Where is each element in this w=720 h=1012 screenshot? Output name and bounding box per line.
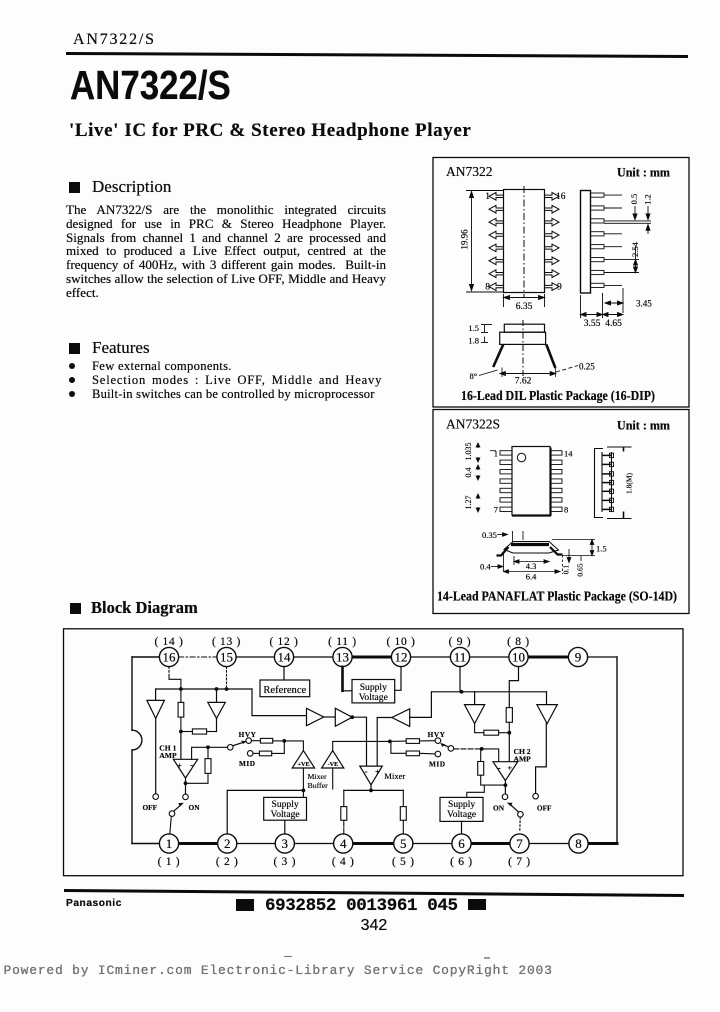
wire U1 inverting input riser bbox=[192, 747, 208, 759]
buffer A4 (live filter stage 2) bbox=[335, 708, 352, 726]
wire pin2-pin3 bbox=[237, 843, 275, 845]
resistor R1 stem bottom bbox=[180, 717, 182, 731]
svg-text:( 12 ): ( 12 ) bbox=[269, 636, 298, 648]
svg-text:+: + bbox=[375, 768, 380, 777]
resistor R2 bbox=[192, 729, 206, 734]
resistor R10 bbox=[400, 807, 406, 821]
buffer -VE (mixer buffer) bbox=[322, 751, 344, 768]
wire node to op-amp U1 + input bbox=[180, 732, 182, 760]
label MID (CH2) bbox=[429, 759, 446, 768]
switch contact OFF (CH1) bbox=[153, 794, 159, 800]
wire amp A2 stem bbox=[216, 689, 218, 702]
side pins bbox=[591, 193, 652, 288]
front centerline bbox=[522, 320, 524, 378]
pin 8 (bottom) bbox=[569, 834, 588, 853]
wire node to switch SW1 common bbox=[208, 746, 228, 748]
SO body bbox=[512, 447, 550, 516]
wire rail right leg bbox=[402, 790, 404, 806]
svg-text:15: 15 bbox=[220, 649, 233, 664]
svg-text:HVY: HVY bbox=[239, 730, 257, 739]
wire feedback hook bbox=[186, 773, 209, 783]
op-amp U1 (CH1 amp) bbox=[173, 759, 197, 778]
switch contact MID (CH2) bbox=[435, 751, 441, 757]
16-DIP outline box bbox=[433, 158, 689, 408]
label OFF (CH2) bbox=[537, 803, 552, 812]
wire MID contact to R5 bbox=[253, 752, 259, 754]
dim 1.5 / 1.8 bbox=[481, 325, 492, 343]
wire pin8 to right edge (thick) bbox=[588, 842, 617, 845]
wire left input bus bbox=[156, 688, 252, 690]
wire SW2 pivot to feedback node bbox=[454, 748, 482, 750]
buffer A3 (live filter stage 1) bbox=[307, 708, 324, 725]
wire pin5-pin6 bbox=[413, 843, 452, 845]
wire R6 bottom hook to output bbox=[481, 775, 505, 785]
wire pin13-pin12 (thick) bbox=[352, 656, 391, 659]
switch SW3 arm with arrow bbox=[507, 803, 518, 812]
resistor R9 bbox=[341, 807, 347, 821]
svg-text:ON: ON bbox=[493, 804, 505, 813]
wire pin7-pin8 bbox=[529, 843, 569, 845]
svg-text:12: 12 bbox=[395, 649, 408, 664]
label OFF (CH1) bbox=[143, 803, 158, 812]
legs bbox=[493, 344, 503, 367]
profile dims bbox=[497, 531, 523, 543]
dim 0.25 bbox=[556, 366, 578, 373]
node +VE output bbox=[302, 789, 306, 793]
dim 19.96 bbox=[466, 191, 503, 293]
front body lower bbox=[500, 332, 546, 344]
svg-text:OFF: OFF bbox=[537, 803, 552, 812]
resistor R5 (MID gain) bbox=[259, 751, 271, 756]
resistor R8 bbox=[484, 730, 499, 735]
wire R3 top lead bbox=[207, 747, 209, 758]
thick body band bbox=[511, 543, 549, 546]
switch SW1 common contact bbox=[228, 745, 234, 751]
wire pin4-pin5 (thick) bbox=[353, 842, 394, 845]
svg-text:-: - bbox=[190, 760, 193, 770]
svg-text:-VE: -VE bbox=[328, 761, 339, 768]
label Mixer Buffer bbox=[308, 772, 329, 790]
DIP centerline bbox=[523, 186, 525, 297]
left lead bbox=[497, 547, 509, 556]
svg-text:Voltage: Voltage bbox=[359, 692, 388, 703]
wire node to op-amp U2 + input bbox=[508, 733, 510, 762]
pin 4 (bottom) bbox=[332, 834, 355, 868]
node bus/R1 bbox=[179, 687, 183, 691]
resistor R4 (HVY gain) bbox=[260, 738, 272, 743]
wire node riser to R12 bbox=[391, 741, 406, 753]
label CH 2 AMP bbox=[514, 747, 532, 764]
wire supply box to pin6 bbox=[461, 821, 463, 834]
svg-text:( 11 ): ( 11 ) bbox=[328, 636, 357, 648]
SO pins left bbox=[500, 451, 512, 512]
block Reference bbox=[260, 680, 310, 697]
svg-text:+VE: +VE bbox=[298, 761, 310, 768]
DIP pins left bbox=[489, 193, 504, 291]
wire R10 to pin5 bbox=[402, 820, 404, 834]
svg-text:( 2 ): ( 2 ) bbox=[216, 856, 239, 868]
wire pin13 stub (thick) bbox=[343, 667, 353, 691]
wire R5 riser to node bbox=[272, 741, 285, 754]
pin 14 (top) bbox=[269, 636, 298, 667]
wire pin14 stub bbox=[283, 667, 285, 680]
wire R6 top lead bbox=[480, 749, 482, 762]
SO left dims bbox=[476, 443, 496, 512]
node A4 output bbox=[350, 715, 354, 719]
node feedback/inverting (CH2) bbox=[480, 747, 484, 751]
dim 3.45 bbox=[605, 288, 623, 313]
dim 7.62 bbox=[500, 368, 556, 378]
wire pin12 stub bbox=[395, 667, 401, 691]
svg-text:MID: MID bbox=[239, 759, 256, 768]
svg-text:11: 11 bbox=[454, 649, 467, 664]
svg-text:( 7 ): ( 7 ) bbox=[508, 856, 531, 868]
wire A5 output to mixer right input bbox=[377, 718, 392, 767]
node R1/R2 junction bbox=[179, 730, 183, 734]
wire HVY contact to R4 bbox=[252, 740, 261, 742]
wire pin9 to right edge bbox=[588, 656, 617, 658]
wire pin15 stub (dotted) bbox=[226, 667, 228, 687]
node pin11/bus bbox=[460, 690, 464, 694]
wire U1 output down bbox=[185, 778, 187, 794]
op-amp A1 (CH1 input buffer) bbox=[147, 700, 165, 718]
wire amp A1 stem bbox=[155, 689, 157, 700]
svg-text:5: 5 bbox=[400, 836, 407, 851]
wire supply box to pin3 bbox=[284, 820, 286, 834]
pin 13 (top) bbox=[328, 636, 357, 667]
resistor R11 (HVY gain CH2) bbox=[406, 739, 419, 744]
svg-text:( 13 ): ( 13 ) bbox=[212, 636, 241, 648]
svg-text:( 9 ): ( 9 ) bbox=[449, 636, 472, 648]
wire pin2 riser to +VE node bbox=[227, 790, 303, 834]
op-amp A6 (CH2 gain amp) bbox=[465, 705, 485, 724]
wire pin16-pin15 (dash-dot) bbox=[179, 656, 217, 658]
resistor R1 bbox=[178, 702, 184, 717]
op-amp A2 (CH1 gain amp) bbox=[208, 702, 226, 718]
pin 15 (top) bbox=[212, 636, 241, 667]
wire node to U2 inverting input bbox=[482, 749, 499, 762]
node mixer output bbox=[369, 789, 373, 793]
wire A6 stem bbox=[474, 692, 476, 705]
svg-text:Buffer: Buffer bbox=[308, 781, 329, 790]
svg-text:Mixer: Mixer bbox=[308, 772, 327, 781]
node A2 stem on bus bbox=[215, 687, 219, 691]
switch contact HVY (CH1) bbox=[246, 738, 252, 744]
wire pin12-pin11 bbox=[411, 656, 451, 658]
wire pin16 stub (dotted) bbox=[168, 667, 170, 677]
svg-text:( 6 ): ( 6 ) bbox=[450, 856, 473, 868]
svg-text:7: 7 bbox=[516, 836, 523, 851]
op-amp U2 (CH2 amp) bbox=[493, 762, 518, 781]
wire pin10 elbow bbox=[509, 667, 518, 708]
pin 6 (bottom) bbox=[450, 834, 473, 868]
svg-text:16: 16 bbox=[163, 649, 177, 664]
svg-text:2: 2 bbox=[224, 836, 231, 851]
wire bus elbow to A5 input bbox=[410, 692, 432, 718]
resistor R12 (MID gain CH2) bbox=[406, 751, 419, 756]
switch contact HVY (CH2) bbox=[435, 738, 441, 744]
svg-text:Reference: Reference bbox=[263, 685, 306, 696]
wire pin15-pin14 bbox=[236, 656, 274, 658]
IC outline right edge bbox=[616, 657, 618, 844]
svg-text:+: + bbox=[177, 762, 182, 771]
14-PANAFLAT outline box bbox=[433, 410, 689, 614]
block Supply Voltage (left) bbox=[264, 797, 307, 820]
wire A4 output to mixer left input bbox=[352, 717, 366, 766]
svg-text:( 14 ): ( 14 ) bbox=[154, 636, 183, 648]
node HVY/MID junction (CH2) bbox=[388, 740, 392, 744]
svg-text:1: 1 bbox=[166, 836, 173, 851]
wire R4 to node bbox=[273, 740, 285, 742]
pin 9 (top) bbox=[568, 647, 587, 666]
right lead bbox=[550, 547, 563, 555]
pin 3 (bottom) bbox=[273, 834, 296, 868]
switch contact ON (CH1) bbox=[183, 794, 189, 800]
block Supply Voltage (top) bbox=[352, 680, 395, 703]
node pin15/bus bbox=[225, 687, 229, 691]
wire pin16 elbow to bus bbox=[169, 677, 181, 689]
switch SW4 pivot contact bbox=[169, 811, 175, 817]
node U1 output bbox=[184, 781, 188, 785]
wire right bus bbox=[431, 691, 546, 693]
resistor R7 bbox=[506, 708, 512, 723]
op-amp A7 (CH2 input buffer) bbox=[537, 705, 557, 724]
node R7/R8 junction bbox=[507, 731, 511, 735]
switch contact OFF (CH2) bbox=[533, 793, 539, 799]
pin1 index circle bbox=[517, 453, 525, 461]
wire SW4 pivot to pin1 bbox=[170, 816, 172, 834]
pin 10 (top) bbox=[507, 636, 530, 667]
node feedback/inverting bbox=[206, 745, 210, 749]
wire +VE base down bbox=[302, 768, 304, 790]
wire R7 bottom lead bbox=[508, 722, 510, 732]
svg-text:HVY: HVY bbox=[428, 730, 446, 739]
svg-text:13: 13 bbox=[336, 649, 349, 664]
label Mixer bbox=[384, 771, 405, 781]
node U2 output bbox=[504, 783, 508, 787]
wire R12 to MID contact bbox=[420, 752, 436, 755]
wire R11 to HVY contact bbox=[420, 740, 436, 742]
side body slab bbox=[581, 191, 591, 294]
pin 7 (bottom) bbox=[508, 834, 531, 868]
pin 2 (bottom) bbox=[216, 834, 239, 868]
DIP pins right bbox=[545, 193, 560, 291]
dim 6.35 bbox=[504, 294, 545, 307]
pin 5 (bottom) bbox=[392, 834, 415, 868]
svg-text:Voltage: Voltage bbox=[447, 809, 476, 820]
switch SW2 arm with arrow bbox=[440, 743, 448, 747]
pin 1 (bottom) bbox=[158, 834, 181, 868]
pin 11 (top) bbox=[449, 636, 472, 667]
pin 16 (top) bbox=[154, 636, 183, 667]
front body top bar bbox=[504, 324, 544, 332]
switch SW2 pivot contact bbox=[448, 746, 454, 752]
svg-text:9: 9 bbox=[575, 649, 582, 664]
resistor R6 (U2 feedback) bbox=[478, 762, 484, 776]
svg-text:( 1 ): ( 1 ) bbox=[158, 856, 181, 868]
wire pin3-pin4 bbox=[294, 843, 333, 845]
dim 0.5 / 1.2 bbox=[633, 206, 650, 234]
wire R9 to pin4 bbox=[343, 820, 345, 834]
wire SW3 pivot to pin7 (dotted) bbox=[519, 817, 521, 831]
label MID (CH1) bbox=[239, 759, 256, 768]
svg-text:Voltage: Voltage bbox=[271, 809, 300, 820]
svg-text:Mixer: Mixer bbox=[384, 771, 405, 781]
wire A2 output down bbox=[216, 718, 218, 731]
body lens bbox=[504, 542, 559, 554]
wire U2 output down bbox=[504, 781, 506, 794]
wire IC top edge: left corner to pin 16 bbox=[132, 656, 159, 658]
svg-text:( 3 ): ( 3 ) bbox=[273, 856, 296, 868]
label HVY (CH2) bbox=[428, 730, 446, 739]
wire R2 left lead bbox=[181, 731, 193, 733]
wire pin6-pin7 (thick) bbox=[471, 842, 510, 845]
wire R2 right lead bbox=[207, 731, 217, 733]
wire pin10-pin9 (thick) bbox=[528, 656, 568, 659]
svg-text:3: 3 bbox=[282, 836, 289, 851]
svg-text:( 10 ): ( 10 ) bbox=[386, 636, 415, 648]
svg-text:-: - bbox=[498, 763, 501, 773]
svg-text:6: 6 bbox=[458, 836, 465, 851]
wire node into supply box bbox=[302, 790, 304, 797]
dim 2.54 bbox=[634, 246, 638, 273]
switch SW3 pivot contact bbox=[518, 812, 524, 818]
svg-text:( 4 ): ( 4 ) bbox=[332, 856, 355, 868]
wire A7 output to OFF contact bbox=[536, 724, 547, 794]
switch SW1 arm with arrow bbox=[233, 741, 247, 746]
svg-text:+: + bbox=[508, 764, 513, 773]
svg-text:( 8 ): ( 8 ) bbox=[507, 636, 530, 648]
wire IC bottom edge: left corner to pin 1 bbox=[132, 843, 159, 845]
wire node to +VE buffer apex bbox=[284, 741, 303, 751]
wire node to R11 bbox=[390, 740, 406, 742]
node HVY/MID junction (CH1) bbox=[282, 739, 286, 743]
label CH 1 AMP bbox=[159, 744, 177, 761]
svg-text:10: 10 bbox=[512, 649, 525, 664]
wire -VE base down bbox=[332, 768, 334, 789]
wire mixer output rail bbox=[344, 789, 404, 791]
svg-text:OFF: OFF bbox=[143, 803, 158, 812]
wire pin1-pin2 (thick) bbox=[179, 842, 218, 845]
label ON (CH2) bbox=[493, 804, 505, 813]
IC outline left edge with pin-1 notch bbox=[132, 657, 142, 844]
wire bus elbow to A7 bbox=[546, 692, 548, 705]
wire pin11 stub bbox=[459, 667, 461, 692]
wire pin11-pin10 bbox=[470, 656, 509, 658]
wire A6 output elbow bbox=[475, 724, 484, 733]
mixer U3 bbox=[360, 766, 383, 785]
block Supply Voltage (right) bbox=[440, 797, 483, 821]
svg-text:-: - bbox=[365, 766, 368, 776]
svg-text:8: 8 bbox=[575, 836, 582, 851]
label HVY (CH1) bbox=[239, 730, 257, 739]
wire R8 to node bbox=[499, 732, 510, 734]
switch contact MID (CH1) bbox=[247, 751, 253, 757]
switch contact ON (CH2) bbox=[502, 794, 508, 800]
wire A1 output to OFF contact bbox=[155, 718, 157, 793]
resistor R3 (U1 feedback) bbox=[205, 759, 211, 774]
svg-text:MID: MID bbox=[429, 759, 446, 768]
wire -VE apex to CH2 gain rail bbox=[333, 741, 390, 750]
resistor R1 stem top bbox=[180, 689, 182, 702]
wire bus corner down to buffer A3 input bbox=[252, 689, 307, 716]
wire mixer output bbox=[370, 785, 372, 791]
wire supply box top elbow bbox=[467, 785, 485, 797]
svg-text:( 5 ): ( 5 ) bbox=[392, 856, 415, 868]
pin 12 (top) bbox=[386, 636, 415, 667]
DIP body bbox=[504, 190, 545, 293]
SO pins right bbox=[550, 451, 562, 512]
wire rail left leg bbox=[343, 790, 345, 806]
svg-text:ON: ON bbox=[189, 803, 201, 812]
buffer A5 (left-pointing) bbox=[392, 709, 410, 727]
wire A3 to A4 bbox=[324, 716, 336, 718]
block diagram outer border bbox=[64, 629, 684, 876]
svg-text:4: 4 bbox=[340, 836, 347, 851]
buffer +VE (mixer buffer) bbox=[292, 751, 314, 768]
dim 3.55 / 4.65 bbox=[581, 293, 624, 318]
switch SW4 arm with arrow bbox=[174, 803, 184, 811]
svg-text:14: 14 bbox=[278, 649, 292, 664]
wire pin14-pin13 bbox=[294, 656, 333, 658]
label ON (CH1) bbox=[189, 803, 201, 812]
